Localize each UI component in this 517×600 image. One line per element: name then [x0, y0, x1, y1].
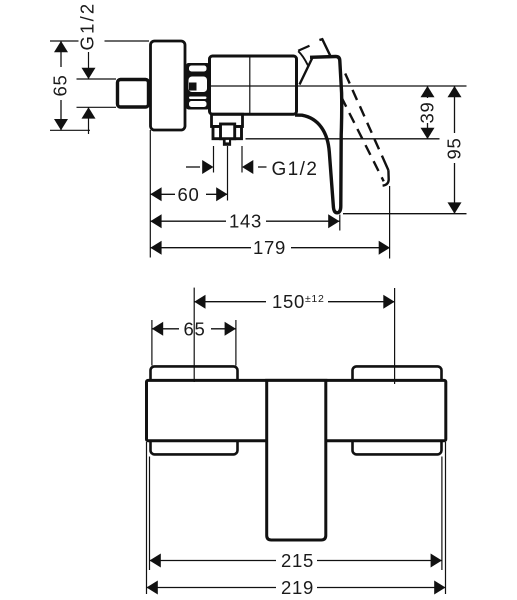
svg-text:60: 60 [178, 184, 200, 205]
right escutcheon tab [353, 366, 442, 454]
outlet nipple [212, 114, 243, 126]
dim G1/2 outlet [186, 166, 200, 168]
dim 179 [150, 247, 251, 249]
dim 95 [454, 86, 456, 133]
outlet center tab [221, 124, 235, 139]
extension outlet left [213, 146, 215, 173]
dim 215 extensions [149, 457, 151, 571]
outlet nub tip [223, 138, 231, 146]
lever handle solid [300, 58, 313, 85]
outlet nut [213, 127, 242, 139]
rotation arc [298, 51, 308, 65]
lever rotated dashed [342, 98, 384, 182]
svg-text:39: 39 [417, 102, 438, 124]
square inlet fitting [118, 80, 149, 108]
svg-text:65: 65 [184, 318, 206, 339]
dim 215 [150, 560, 277, 562]
svg-text:65: 65 [50, 75, 71, 97]
nut notch [189, 83, 197, 91]
left escutcheon tab [151, 366, 238, 454]
escutcheon side view [151, 41, 186, 130]
mixer body [210, 56, 297, 114]
svg-text:215: 215 [281, 550, 314, 571]
svg-text:G1/2: G1/2 [272, 159, 319, 180]
dim 60 [150, 193, 175, 195]
dim 150 extension right [394, 288, 396, 384]
dim 219 [147, 587, 277, 589]
svg-text:143: 143 [229, 211, 262, 232]
dashed tip cap [383, 170, 389, 186]
handle front [267, 380, 326, 540]
extension outlet center [227, 146, 229, 201]
svg-text:219: 219 [281, 577, 314, 598]
center axis line [196, 85, 467, 87]
svg-text:G1/2: G1/2 [77, 2, 98, 51]
dim 65 side [50, 40, 79, 42]
dim 143 [150, 220, 226, 222]
extension lever tip [339, 215, 341, 231]
dim 39 [427, 86, 429, 98]
body bar front [147, 380, 446, 440]
svg-text:95: 95 [444, 138, 465, 160]
dim 150+-12 [194, 301, 266, 303]
dim 219 extensions [146, 442, 148, 594]
extension outlet right [241, 146, 243, 173]
outlet nub notch [226, 140, 229, 143]
hex nut [186, 63, 210, 110]
dim 65 front [152, 328, 179, 330]
extension wall line [149, 130, 151, 258]
lever up-position dashes [298, 46, 309, 51]
svg-text:179: 179 [253, 237, 286, 258]
body seam [249, 58, 251, 114]
bottom reference line 95 [343, 213, 467, 215]
dim 150 extension left [193, 288, 195, 382]
G1/2 inlet leader [77, 78, 117, 80]
lower reference line 39 [246, 138, 440, 140]
dim 65 front extensions [151, 320, 153, 366]
extension dashed tip [389, 186, 391, 259]
